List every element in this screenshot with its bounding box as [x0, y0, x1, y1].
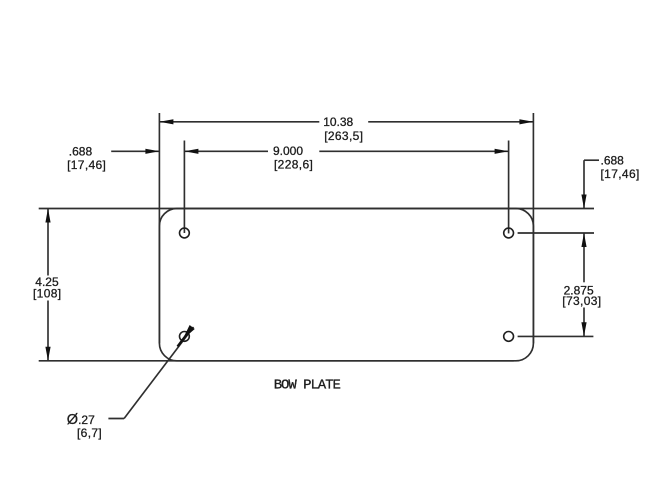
svg-text:10.38: 10.38 — [323, 115, 353, 129]
svg-text:[228,6]: [228,6] — [274, 158, 313, 172]
svg-text:[17,46]: [17,46] — [601, 167, 640, 181]
svg-text:.688: .688 — [601, 154, 625, 168]
svg-text:[6,7]: [6,7] — [77, 426, 102, 440]
svg-text:9.000: 9.000 — [273, 144, 303, 158]
svg-text:[17,46]: [17,46] — [67, 158, 106, 172]
svg-text:[73,03]: [73,03] — [562, 294, 601, 308]
svg-text:[108]: [108] — [33, 286, 61, 300]
svg-text:[263,5]: [263,5] — [324, 129, 363, 143]
svg-text:BOW PLATE: BOW PLATE — [274, 378, 341, 394]
svg-text:.688: .688 — [69, 145, 93, 159]
